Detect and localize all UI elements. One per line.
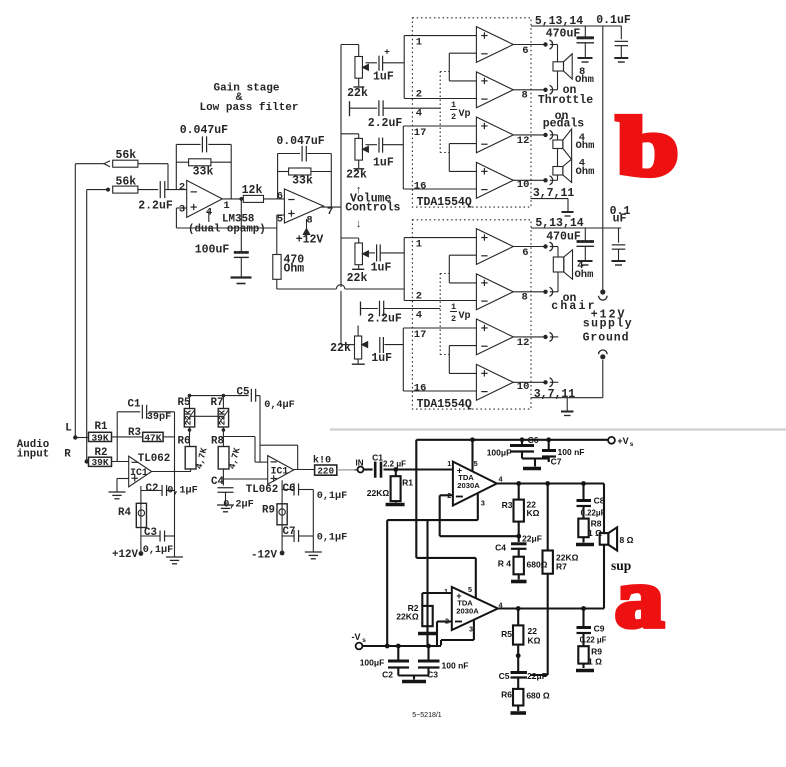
svg-text:1: 1	[451, 302, 456, 312]
svg-text:Ohm: Ohm	[576, 166, 595, 178]
svg-text:b: b	[617, 101, 679, 194]
svg-text:2030A: 2030A	[456, 607, 479, 616]
svg-text:1: 1	[416, 36, 422, 48]
svg-text:17: 17	[414, 127, 427, 139]
svg-text:5~5218/1: 5~5218/1	[412, 712, 441, 719]
svg-text:R8: R8	[211, 436, 224, 448]
svg-text:Vp: Vp	[459, 311, 471, 322]
svg-text:Controls: Controls	[345, 201, 400, 214]
svg-text:100μF: 100μF	[360, 658, 385, 668]
svg-text:C6: C6	[528, 435, 539, 445]
svg-text:16: 16	[414, 383, 427, 395]
svg-text:0,1μF: 0,1μF	[317, 491, 348, 502]
svg-text:uF: uF	[613, 213, 627, 226]
svg-text:4: 4	[416, 309, 422, 321]
svg-text:10: 10	[517, 179, 530, 191]
svg-text:22k: 22k	[347, 87, 368, 100]
svg-text:5,13,14: 5,13,14	[535, 217, 583, 230]
svg-text:C3: C3	[144, 527, 157, 539]
svg-text:+12V: +12V	[112, 549, 138, 561]
svg-text:-V: -V	[352, 632, 361, 642]
svg-text:pedals: pedals	[543, 118, 585, 131]
svg-text:-12V: -12V	[251, 550, 277, 562]
svg-text:22μF: 22μF	[527, 671, 547, 681]
svg-text:R7: R7	[556, 562, 567, 572]
svg-text:s: s	[630, 441, 634, 448]
svg-text:22k: 22k	[346, 168, 367, 181]
svg-text:1: 1	[451, 100, 456, 110]
svg-text:R6: R6	[178, 436, 191, 448]
svg-text:2: 2	[416, 290, 422, 302]
svg-text:2: 2	[451, 314, 456, 324]
svg-text:10: 10	[517, 381, 530, 393]
svg-text:+12V: +12V	[296, 233, 324, 246]
svg-text:1uF: 1uF	[371, 352, 392, 365]
svg-text:KΩ: KΩ	[528, 636, 541, 646]
svg-text:470uF: 470uF	[546, 28, 581, 41]
svg-text:6: 6	[522, 247, 528, 259]
svg-text:TL062: TL062	[246, 484, 278, 496]
svg-text:C5: C5	[237, 387, 250, 399]
svg-text:33k: 33k	[193, 166, 214, 179]
svg-text:7: 7	[327, 206, 333, 218]
svg-text:Ohm: Ohm	[575, 269, 594, 281]
svg-text:R3: R3	[128, 427, 141, 439]
svg-text:12: 12	[517, 337, 530, 349]
svg-text:C2: C2	[146, 483, 159, 495]
svg-text:17: 17	[414, 329, 427, 341]
svg-text:22KΩ: 22KΩ	[396, 612, 419, 622]
svg-text:C8: C8	[594, 496, 605, 506]
svg-text:a: a	[615, 551, 664, 644]
svg-text:1uF: 1uF	[373, 157, 394, 170]
svg-text:0,4μF: 0,4μF	[264, 400, 295, 411]
svg-text:IC1: IC1	[130, 467, 148, 478]
svg-text:0.047uF: 0.047uF	[180, 124, 228, 137]
svg-text:Ohm: Ohm	[575, 74, 594, 86]
svg-text:R4: R4	[118, 507, 131, 519]
svg-text:KΩ: KΩ	[527, 508, 540, 518]
svg-text:R1: R1	[95, 421, 108, 433]
svg-text:3: 3	[179, 204, 185, 216]
svg-text:TDA1554Q: TDA1554Q	[417, 196, 472, 209]
svg-text:8 Ω: 8 Ω	[620, 535, 634, 545]
svg-text:0,1μF: 0,1μF	[143, 545, 174, 556]
svg-text:5: 5	[474, 459, 478, 468]
svg-text:s: s	[362, 637, 366, 644]
svg-text:TDA1554Q: TDA1554Q	[417, 398, 472, 411]
svg-text:39K: 39K	[91, 457, 108, 468]
svg-text:4: 4	[416, 107, 422, 119]
svg-text:680 Ω: 680 Ω	[526, 691, 550, 701]
svg-text:supply: supply	[583, 318, 633, 331]
svg-text:Ohm: Ohm	[284, 263, 305, 276]
svg-text:R6: R6	[501, 690, 512, 700]
svg-text:2: 2	[451, 112, 456, 122]
svg-text:1 Ω: 1 Ω	[588, 657, 602, 667]
svg-text:22k: 22k	[330, 342, 351, 355]
svg-text:IC1: IC1	[271, 466, 289, 477]
svg-text:0.047uF: 0.047uF	[276, 135, 324, 148]
svg-text:8: 8	[306, 215, 312, 227]
svg-text:C5: C5	[499, 671, 510, 681]
svg-text:22μF: 22μF	[522, 534, 542, 544]
svg-text:2: 2	[179, 182, 185, 194]
svg-text:C1: C1	[372, 453, 383, 463]
svg-text:100 nF: 100 nF	[558, 447, 585, 457]
svg-text:L: L	[65, 423, 71, 435]
svg-text:R5: R5	[178, 397, 191, 409]
svg-text:16: 16	[414, 181, 427, 193]
svg-text:100uF: 100uF	[195, 244, 230, 257]
svg-text:0.1uF: 0.1uF	[596, 14, 631, 27]
svg-text:470uF: 470uF	[546, 231, 581, 244]
svg-text:R8: R8	[591, 519, 602, 529]
svg-text:22KΩ: 22KΩ	[367, 488, 390, 498]
svg-text:C9: C9	[594, 624, 605, 634]
svg-text:C1: C1	[128, 399, 141, 411]
svg-text:C2: C2	[382, 670, 393, 680]
svg-text:R7: R7	[211, 397, 224, 409]
svg-text:33k: 33k	[292, 174, 313, 187]
svg-text:↓: ↓	[355, 219, 362, 231]
svg-text:100μF: 100μF	[487, 448, 512, 458]
svg-text:2.2uF: 2.2uF	[367, 313, 402, 326]
svg-text:47K: 47K	[144, 432, 161, 443]
svg-text:12: 12	[517, 135, 530, 147]
svg-text:C7: C7	[551, 457, 562, 467]
svg-text:Vp: Vp	[459, 109, 471, 120]
svg-text:39K: 39K	[91, 432, 108, 443]
svg-text:100 nF: 100 nF	[442, 661, 469, 671]
svg-text:R3: R3	[502, 500, 513, 510]
svg-text:1uF: 1uF	[373, 71, 394, 84]
svg-text:Gain stage: Gain stage	[213, 83, 279, 95]
svg-text:2.2uF: 2.2uF	[138, 200, 173, 213]
svg-text:(dual opamp): (dual opamp)	[188, 224, 266, 236]
svg-text:1: 1	[444, 587, 448, 596]
svg-text:Ground: Ground	[583, 332, 630, 345]
svg-text:R: R	[64, 449, 71, 461]
svg-text:C4: C4	[211, 476, 224, 488]
svg-text:+V: +V	[617, 436, 628, 446]
svg-text:2.2 μF: 2.2 μF	[383, 460, 406, 469]
svg-text:3: 3	[469, 625, 473, 634]
svg-text:Throttle: Throttle	[538, 94, 593, 107]
svg-text:39pF: 39pF	[147, 412, 171, 423]
svg-text:4: 4	[499, 475, 503, 484]
svg-text:3,7,11: 3,7,11	[534, 388, 576, 401]
svg-text:22: 22	[528, 626, 538, 636]
svg-text:2030A: 2030A	[457, 481, 480, 490]
svg-text:R5: R5	[501, 629, 512, 639]
svg-text:8: 8	[522, 291, 528, 303]
svg-text:R9: R9	[591, 647, 602, 657]
svg-text:1: 1	[223, 200, 229, 212]
svg-text:R9: R9	[262, 505, 275, 517]
svg-text:Low pass filter: Low pass filter	[199, 102, 298, 114]
svg-text:5: 5	[468, 585, 472, 594]
svg-text:1uF: 1uF	[371, 262, 392, 275]
svg-text:0,1μF: 0,1μF	[317, 533, 348, 544]
svg-text:8: 8	[522, 89, 528, 101]
svg-text:+: +	[384, 47, 390, 58]
svg-text:2.2uF: 2.2uF	[368, 117, 403, 130]
svg-text:220: 220	[317, 465, 334, 476]
svg-text:input: input	[17, 449, 49, 461]
svg-text:TL062: TL062	[138, 453, 170, 465]
svg-text:680Ω: 680Ω	[527, 560, 548, 570]
svg-text:1: 1	[447, 459, 451, 468]
svg-text:5,13,14: 5,13,14	[535, 15, 583, 28]
svg-text:R1: R1	[402, 478, 413, 488]
svg-text:Ohm: Ohm	[576, 140, 595, 152]
svg-text:2: 2	[416, 88, 422, 100]
svg-text:1: 1	[416, 238, 422, 250]
svg-text:0,1μF: 0,1μF	[167, 486, 198, 497]
svg-text:R 4: R 4	[498, 559, 512, 569]
svg-text:22k: 22k	[347, 272, 368, 285]
svg-text:6: 6	[522, 45, 528, 57]
svg-text:C4: C4	[495, 543, 506, 553]
svg-text:3: 3	[481, 499, 485, 508]
